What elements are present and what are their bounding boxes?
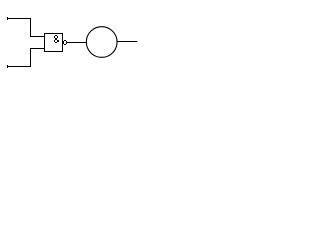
- wire input B horizontal: [7, 66, 31, 68]
- gate function label & (bitmap-style glyph): [54, 35, 59, 43]
- NAND gate U1 (IEC rectangle): [45, 34, 63, 52]
- input terminal B: [7, 65, 8, 68]
- indicator lamp H1 (circle): [86, 27, 117, 58]
- wire lamp to output: [117, 41, 137, 43]
- wire input A horizontal: [7, 18, 31, 20]
- wire riser B: [30, 48, 32, 67]
- input terminal A: [7, 17, 8, 20]
- wire stub B to gate lower input: [30, 48, 45, 50]
- wire stub A to gate upper input: [30, 36, 45, 38]
- wire riser A: [30, 18, 32, 37]
- wire gate output to lamp: [67, 42, 87, 44]
- inversion bubble on gate output (pixel circle): [63, 40, 67, 45]
